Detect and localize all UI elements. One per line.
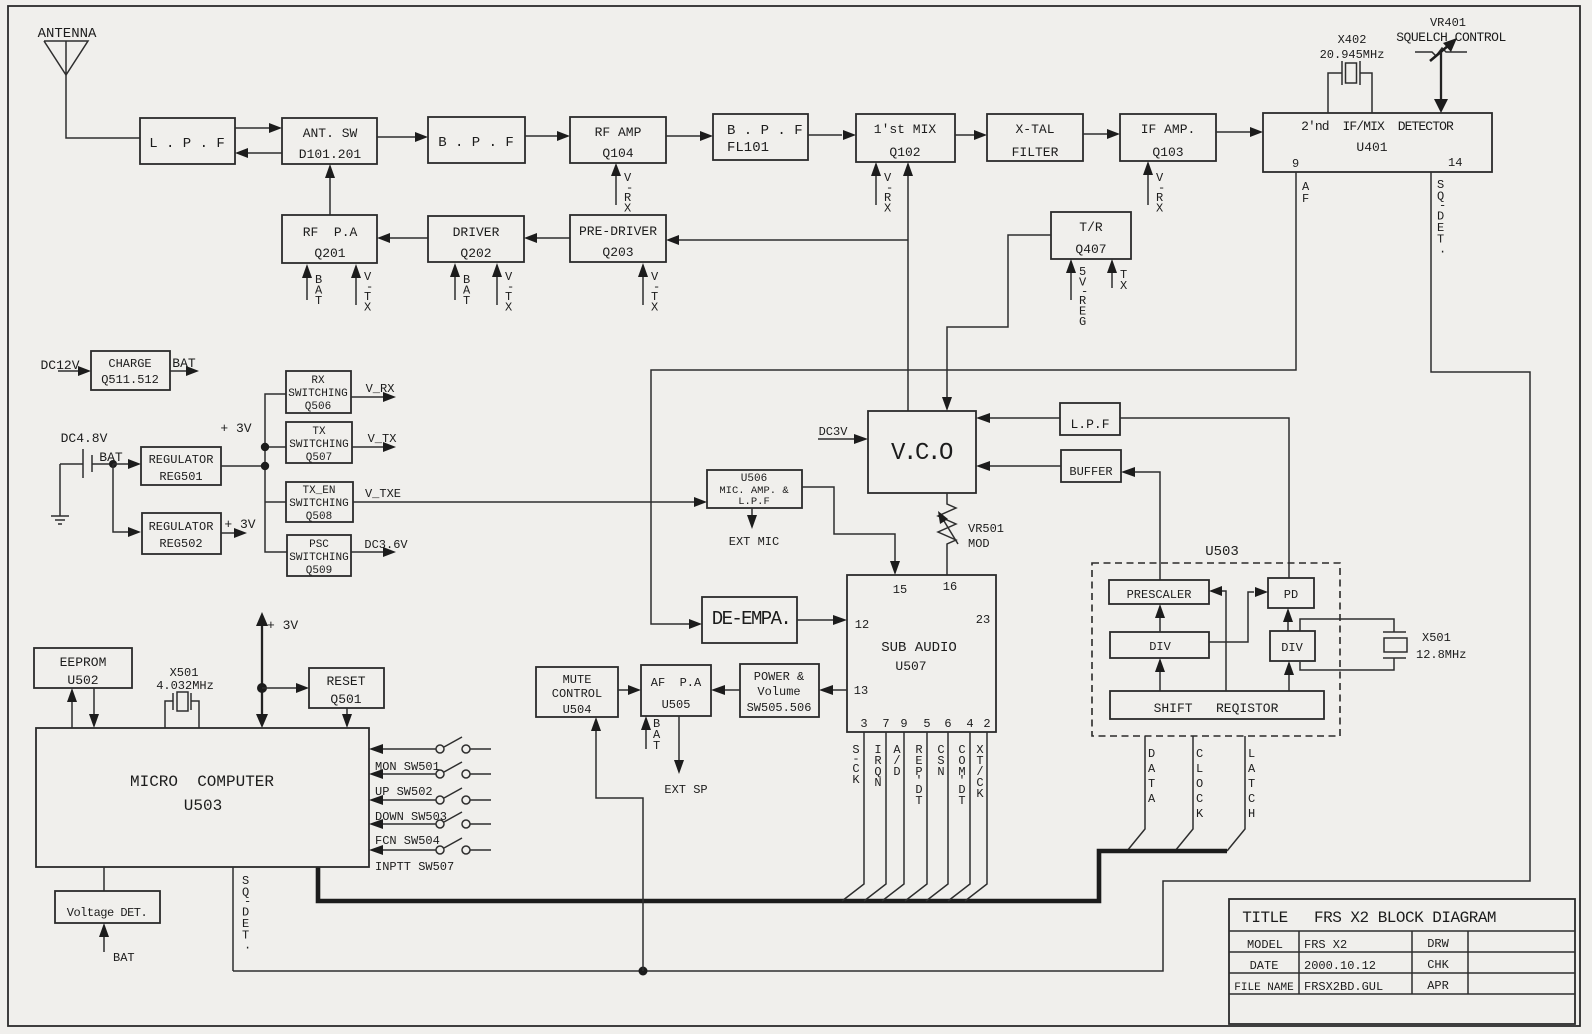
arrow B.P.F FL101 to 1'st MIX [808, 130, 856, 140]
wire micro to Voltage DET [103, 867, 105, 891]
svg-text:T/R: T/R [1079, 220, 1103, 235]
supply arrow BAT into Voltage DET [99, 923, 135, 965]
svg-text:X-TAL: X-TAL [1015, 122, 1054, 137]
svg-text:Q501: Q501 [330, 692, 361, 707]
svg-text:U502: U502 [67, 673, 98, 688]
arrow AF P.A to EXT SP [664, 716, 707, 797]
supply arrow BAT into DRIVER [450, 263, 471, 308]
block EEPROM U502 [34, 648, 132, 688]
svg-text:9: 9 [1292, 157, 1299, 171]
svg-text:Q203: Q203 [602, 245, 633, 260]
svg-text:SWITCHING: SWITCHING [288, 388, 347, 400]
svg-text:7: 7 [882, 717, 889, 731]
arrow RF AMP to B.P.F FL101 [666, 131, 713, 141]
svg-text:2'nd IF/MIX DETECTOR: 2'nd IF/MIX DETECTOR [1301, 119, 1454, 134]
svg-text:FILE NAME: FILE NAME [1234, 982, 1294, 994]
wire REG501 output to rail [221, 465, 265, 467]
arrow U506 to EXT MIC [729, 508, 779, 549]
wire SQ.DET net to U401 pin 14 [233, 172, 1530, 971]
svg-text:LATCH: LATCH [1248, 747, 1256, 821]
svg-text:V_TX: V_TX [368, 432, 397, 446]
arrow U507 pin 13 to POWER and Volume [819, 685, 847, 695]
svg-text:SW505.506: SW505.506 [747, 701, 812, 715]
svg-text:Q509: Q509 [306, 565, 332, 577]
title block grid [1229, 931, 1575, 994]
arrow CHARGE output BAT [170, 356, 199, 376]
svg-text:SWITCHING: SWITCHING [289, 439, 348, 451]
arrow DRIVER to RF P.A [377, 233, 428, 243]
arrow PSC output DC3.6V [351, 538, 408, 557]
svg-text:RF P.A: RF P.A [303, 225, 358, 240]
svg-text:Q508: Q508 [306, 511, 332, 523]
svg-text:AF: AF [1302, 180, 1310, 206]
svg-text:FRS X2: FRS X2 [1304, 938, 1347, 952]
svg-text:BAT: BAT [113, 951, 135, 965]
svg-text:B . P . F: B . P . F [438, 135, 514, 151]
wire PLL L.P.F to PD [1120, 418, 1289, 578]
svg-text:X402: X402 [1338, 33, 1367, 47]
arrow RF P.A to ANT.SW (TX path) [325, 164, 335, 215]
svg-text:A/D: A/D [893, 743, 901, 779]
svg-text:REP'DT: REP'DT [915, 743, 922, 808]
title block frame [1229, 899, 1575, 1024]
wire DATA line [1127, 736, 1156, 851]
svg-text:5: 5 [923, 717, 930, 731]
node SQ.DET to MUTE junction [639, 967, 648, 976]
block RF AMP Q104 [570, 117, 666, 163]
svg-text:U505: U505 [662, 698, 691, 712]
amp U506 MIC.AMP and L.P.F [707, 470, 802, 508]
svg-text:SHIFT REQISTOR: SHIFT REQISTOR [1154, 701, 1279, 716]
svg-text:BUFFER: BUFFER [1069, 465, 1112, 479]
block DRIVER Q202 [428, 216, 524, 262]
block CHARGE Q511.512 [91, 351, 170, 390]
svg-text:ANT. SW: ANT. SW [303, 126, 358, 141]
svg-text:ANTENNA: ANTENNA [38, 26, 97, 42]
svg-text:PD: PD [1284, 588, 1298, 602]
node battery junction [109, 460, 117, 468]
supply arrow V-RX into IF AMP [1143, 161, 1165, 216]
svg-text:VR401: VR401 [1430, 16, 1466, 30]
svg-text:MICRO COMPUTER: MICRO COMPUTER [130, 773, 274, 791]
arrow RESET to micro [342, 708, 352, 728]
wire VR401 to U401 squelch input [1434, 52, 1448, 113]
svg-text:+ 3V: + 3V [267, 618, 298, 633]
block AF P.A U505 [641, 665, 711, 716]
svg-text:TX_EN: TX_EN [302, 485, 335, 497]
svg-text:DC4.8V: DC4.8V [61, 431, 108, 446]
svg-text:DC3.6V: DC3.6V [364, 538, 408, 552]
svg-text:EEPROM: EEPROM [60, 655, 107, 670]
svg-text:U503: U503 [1205, 544, 1239, 560]
arrow SHIFT REQISTOR to DIV [1155, 658, 1165, 691]
svg-text:CSN: CSN [937, 743, 944, 779]
block RF P.A Q201 [282, 215, 377, 263]
wire V_TXE to U506 [353, 487, 707, 507]
svg-text:23: 23 [976, 613, 990, 627]
svg-text:V_TXE: V_TXE [365, 487, 401, 501]
block B.P.F FL101 [713, 114, 808, 160]
block REGULATOR REG502 [142, 513, 221, 554]
wire U507 pin5 REP'DT [905, 732, 927, 901]
block L.P.F (RX front-end) [140, 118, 235, 164]
svg-text:APR: APR [1427, 979, 1449, 993]
svg-text:RESET: RESET [326, 674, 365, 689]
svg-text:DIV: DIV [1281, 641, 1303, 655]
arrow DC3V into V.C.O [818, 425, 868, 444]
crystal X402 20.945MHz [1320, 33, 1385, 113]
svg-text:FILTER: FILTER [1012, 145, 1059, 160]
bus micro computer to PLL (serial control) [318, 851, 1227, 901]
wire CLOCK line [1175, 736, 1204, 851]
block X-TAL FILTER [987, 114, 1083, 161]
arrow EEPROM to micro [89, 688, 99, 728]
block RX SWITCHING Q506 [286, 371, 351, 413]
svg-text:Q511.512: Q511.512 [101, 373, 159, 387]
title text TITLE FRS X2 BLOCK DIAGRAM [1242, 909, 1496, 927]
supply arrow TX into T/R [1107, 259, 1127, 293]
IC U507 SUB AUDIO [847, 575, 996, 732]
node rail junction upper [261, 443, 269, 451]
svg-text:DIV: DIV [1149, 640, 1171, 654]
wire +3V rail to switching blocks [265, 394, 287, 552]
svg-text:RX: RX [311, 375, 325, 387]
svg-text:REG501: REG501 [159, 470, 202, 484]
wire antenna to L.P.F [66, 75, 140, 138]
arrow DC12V to CHARGE [58, 366, 91, 376]
svg-text:REG502: REG502 [159, 537, 202, 551]
svg-text:Q104: Q104 [602, 146, 633, 161]
arrow DE-EMPA to U507 pin 12 [797, 615, 847, 625]
svg-text:FRS X2 BLOCK DIAGRAM: FRS X2 BLOCK DIAGRAM [1314, 909, 1496, 927]
supply arrow BAT into AF P.A [641, 716, 661, 753]
svg-text:PSC: PSC [309, 539, 329, 551]
svg-text:IF AMP.: IF AMP. [1141, 122, 1196, 137]
svg-text:16: 16 [943, 580, 957, 594]
wire U401 pin9 AF to DE-EMPA [651, 172, 1296, 629]
svg-text:14: 14 [1448, 156, 1462, 170]
svg-text:FRSX2BD.GUL: FRSX2BD.GUL [1304, 980, 1383, 994]
svg-text:2: 2 [983, 717, 990, 731]
svg-text:CONTROL: CONTROL [552, 687, 602, 701]
wire SHIFT REQISTOR to PRESCALER input [1209, 586, 1226, 691]
svg-text:XT/CK: XT/CK [976, 743, 984, 801]
svg-text:CHK: CHK [1427, 958, 1449, 972]
svg-text:EXT MIC: EXT MIC [729, 535, 779, 549]
oscillator V.C.O [868, 411, 976, 493]
svg-text:MODEL: MODEL [1247, 938, 1283, 952]
svg-text:DRW: DRW [1427, 937, 1449, 951]
arrow SHIFT REQISTOR to DIV (ref) [1284, 661, 1294, 691]
svg-text:Q102: Q102 [889, 145, 920, 160]
svg-text:Volume: Volume [757, 685, 800, 699]
svg-text:INPTT SW507: INPTT SW507 [375, 860, 454, 874]
svg-text:IRQN: IRQN [874, 743, 881, 790]
svg-text:Q407: Q407 [1075, 242, 1106, 257]
switch MON SW501 [369, 737, 491, 774]
arrow L.P.F to V.C.O [976, 413, 1060, 423]
block REGULATOR REG501 [141, 447, 221, 485]
wire U507 pin2 XT/CK [965, 732, 987, 901]
block ANT.SW D101.201 [282, 118, 377, 164]
block PSC SWITCHING Q509 [287, 535, 351, 577]
svg-text:Q103: Q103 [1152, 145, 1183, 160]
svg-text:12.8MHz: 12.8MHz [1416, 648, 1466, 662]
svg-text:+ 3V: + 3V [220, 421, 251, 436]
ground [51, 464, 69, 524]
arrow IF AMP to U401 [1216, 127, 1263, 137]
svg-text:2000.10.12: 2000.10.12 [1304, 959, 1376, 973]
svg-text:L . P . F: L . P . F [149, 136, 225, 152]
filter L.P.F (PLL loop) [1060, 403, 1120, 435]
wire micro SQ.DET output [233, 867, 251, 971]
switch FCN SW504 [369, 812, 491, 848]
antenna [38, 26, 97, 75]
supply arrow V-RX into 1'st MIX [871, 162, 893, 216]
svg-text:4: 4 [966, 717, 973, 731]
svg-text:SQUELCH CONTROL: SQUELCH CONTROL [1396, 30, 1506, 45]
svg-text:DC3V: DC3V [819, 425, 849, 439]
arrow 1'st MIX to X-TAL FILTER [955, 130, 987, 140]
svg-text:DATE: DATE [1250, 959, 1279, 973]
buffer BUFFER [1061, 450, 1121, 482]
svg-text:SWITCHING: SWITCHING [289, 552, 348, 564]
svg-text:+ 3V: + 3V [224, 517, 255, 532]
wire DIV to PD [1209, 587, 1268, 642]
svg-text:AF P.A: AF P.A [651, 676, 702, 690]
svg-text:TX: TX [312, 426, 326, 438]
wire VCO line branch to PRE-DRIVER [666, 235, 908, 245]
dashed boundary U503 [1092, 563, 1340, 736]
svg-text:DE-EMPA.: DE-EMPA. [712, 608, 790, 630]
svg-text:S-CK: S-CK [852, 743, 860, 787]
block MUTE CONTROL U504 [536, 667, 618, 717]
svg-text:DATA: DATA [1148, 747, 1156, 806]
node +3V reset junction [257, 683, 267, 693]
arrow X-TAL FILTER to IF AMP [1083, 129, 1120, 139]
svg-text:BAT: BAT [653, 717, 661, 753]
svg-text:20.945MHz: 20.945MHz [1320, 48, 1385, 62]
arrow +3V to RESET [262, 683, 309, 693]
svg-text:U506: U506 [741, 473, 767, 485]
svg-text:UP SW502: UP SW502 [375, 785, 433, 799]
arrow RX SWITCHING output V_RX [351, 382, 396, 402]
supply +3V to micro computer [256, 612, 298, 728]
svg-text:X501: X501 [170, 666, 199, 680]
svg-text:Voltage DET.: Voltage DET. [67, 906, 147, 920]
battery DC4.8V [60, 449, 123, 478]
svg-text:D101.201: D101.201 [299, 147, 362, 162]
supply arrow V-TX into RF P.A [351, 264, 373, 315]
wire VCO to 1'st MIX (local oscillator) [903, 162, 913, 411]
arrow REG502 output +3V [221, 517, 256, 538]
svg-text:TX: TX [1120, 268, 1127, 293]
block Voltage DET. [55, 891, 160, 923]
svg-text:RF AMP: RF AMP [595, 125, 642, 140]
svg-text:L.P.F: L.P.F [738, 496, 770, 508]
IC U401 2'nd IF/MIX DETECTOR [1263, 113, 1492, 172]
svg-text:1'st MIX: 1'st MIX [874, 122, 937, 137]
wire U507 pin3 S-CK [842, 732, 864, 901]
svg-text:X501: X501 [1422, 631, 1451, 645]
arrow POWER and Volume to AF P.A [711, 685, 740, 695]
block RESET Q501 [309, 668, 384, 708]
svg-text:BAT: BAT [463, 273, 471, 308]
wire U507 pin6 CSN [926, 732, 948, 901]
arrow ANT.SW to L.P.F [235, 148, 282, 158]
svg-text:VR501: VR501 [968, 522, 1004, 536]
svg-text:BAT: BAT [172, 356, 196, 371]
svg-text:MUTE: MUTE [563, 673, 592, 687]
svg-text:Q202: Q202 [460, 246, 491, 261]
wire U507 pin7 IRQN [864, 732, 886, 901]
svg-text:TITLE: TITLE [1242, 909, 1288, 927]
svg-text:9: 9 [900, 717, 907, 731]
switch UP SW502 [369, 762, 491, 799]
svg-text:COM'DT: COM'DT [958, 743, 965, 808]
svg-text:FL101: FL101 [727, 140, 769, 156]
svg-text:6: 6 [944, 717, 951, 731]
svg-text:PRESCALER: PRESCALER [1127, 588, 1192, 602]
arrow micro to EEPROM [67, 688, 77, 728]
wire LATCH line [1227, 736, 1256, 851]
block IF AMP. Q103 [1120, 114, 1216, 161]
wire U507 pin9 A/D [882, 732, 904, 901]
svg-text:U503: U503 [184, 797, 222, 815]
row FILE NAME FRSX2BD.GUL APR [1234, 979, 1449, 994]
wire U506 to U507 pin 15 [802, 487, 900, 575]
block B.P.F [428, 117, 525, 163]
svg-text:B . P . F: B . P . F [727, 123, 803, 139]
svg-text:PRE-DRIVER: PRE-DRIVER [579, 224, 657, 239]
wire U507 pin4 COM'DT [948, 732, 970, 901]
arrow battery to REG501 [113, 459, 141, 469]
arrow PRE-DRIVER to DRIVER [524, 233, 570, 243]
svg-text:MOD: MOD [968, 537, 990, 551]
arrow DIV (ref) to PD [1283, 608, 1293, 631]
supply arrow V-RX into RF AMP [611, 163, 633, 216]
IC U503 MICRO COMPUTER [36, 728, 369, 867]
svg-text:FCN SW504: FCN SW504 [375, 834, 440, 848]
wire battery to REG502 [113, 464, 141, 537]
node rail junction lower [261, 462, 269, 470]
svg-text:3: 3 [860, 717, 867, 731]
svg-text:Q506: Q506 [305, 401, 331, 413]
arrow MUTE CONTROL to AF P.A [618, 685, 641, 695]
block DE-EMPA. [702, 597, 797, 643]
potentiometer VR501 MOD [938, 493, 1004, 575]
svg-text:SUB AUDIO: SUB AUDIO [881, 640, 957, 656]
block POWER and Volume SW505.506 [740, 664, 819, 717]
block TX_EN SWITCHING Q508 [286, 482, 353, 523]
block DIV (N divider) [1110, 632, 1209, 658]
arrow B.P.F to RF AMP [525, 131, 570, 141]
wire PRESCALER to BUFFER [1121, 467, 1160, 580]
block TX SWITCHING Q507 [286, 422, 352, 464]
svg-text:Q201: Q201 [314, 246, 345, 261]
svg-text:MON SW501: MON SW501 [375, 760, 440, 774]
block DIV (reference divider) [1270, 631, 1315, 661]
svg-text:4.032MHz: 4.032MHz [156, 679, 214, 693]
wire T/R to VCO [942, 235, 1051, 411]
wire junction to MUTE CONTROL [591, 717, 643, 971]
block T/R Q407 [1051, 212, 1131, 259]
arrow BUFFER to V.C.O [976, 461, 1061, 471]
arrow ANT.SW to B.P.F [377, 132, 428, 142]
svg-text:L.P.F: L.P.F [1070, 417, 1109, 432]
svg-text:U507: U507 [895, 659, 926, 674]
svg-text:12: 12 [855, 618, 869, 632]
switch INPTT SW507 [369, 838, 491, 874]
svg-text:V.C.O: V.C.O [891, 440, 953, 467]
svg-text:CLOCK: CLOCK [1196, 747, 1204, 821]
svg-text:CHARGE: CHARGE [108, 357, 151, 371]
supply arrow BAT into RF P.A [302, 264, 323, 308]
switch DOWN SW503 [369, 788, 491, 824]
svg-text:DRIVER: DRIVER [453, 225, 500, 240]
arrow DIV to PRESCALER [1155, 604, 1165, 632]
supply arrow V-TX into PRE-DRIVER [638, 263, 660, 315]
block PRE-DRIVER Q203 [570, 215, 666, 262]
svg-text:15: 15 [893, 583, 907, 597]
block PD (phase detector) [1268, 578, 1314, 608]
svg-text:13: 13 [854, 684, 868, 698]
svg-text:SWITCHING: SWITCHING [289, 498, 348, 510]
block 1'st MIX Q102 [856, 114, 955, 162]
arrow TX SWITCHING output V_TX [352, 432, 396, 452]
svg-text:Q507: Q507 [306, 452, 332, 464]
svg-text:BAT: BAT [315, 273, 323, 308]
svg-text:U504: U504 [563, 703, 592, 717]
block SHIFT REQISTOR [1110, 691, 1324, 719]
row DATE 2000.10.12 CHK [1250, 958, 1450, 973]
supply arrow 5VREG into T/R [1066, 259, 1088, 329]
svg-text:U401: U401 [1356, 140, 1387, 155]
svg-text:REGULATOR: REGULATOR [149, 520, 214, 534]
svg-text:REGULATOR: REGULATOR [149, 453, 214, 467]
potentiometer VR401 squelch control [1396, 16, 1506, 61]
svg-text:EXT SP: EXT SP [664, 783, 707, 797]
svg-text:V_RX: V_RX [366, 382, 395, 396]
supply arrow V-TX into DRIVER [492, 263, 514, 315]
svg-text:POWER &: POWER & [754, 670, 804, 684]
crystal X501 12.8MHz [1300, 619, 1466, 670]
crystal X501 4.032MHz (micro clock) [156, 666, 214, 728]
block PRESCALER [1109, 580, 1209, 604]
row MODEL FRS X2 DRW [1247, 937, 1450, 952]
arrow L.P.F to ANT.SW [235, 123, 282, 133]
